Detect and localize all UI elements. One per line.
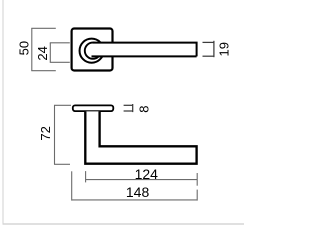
page bottom border: [3, 223, 245, 225]
svg-text:50: 50: [17, 41, 32, 55]
svg-text:8: 8: [136, 106, 151, 113]
page left border: [2, 0, 4, 224]
dimension 72 line: [54, 105, 71, 164]
lever bar (top view): [93, 43, 197, 57]
rosette square (top view): [72, 29, 113, 71]
dimension 50 line: [31, 28, 56, 70]
rosette outer circle: [80, 39, 104, 63]
svg-text:148: 148: [126, 184, 150, 200]
dimension 19 bracket: [203, 41, 214, 57]
handle L profile (front view): [85, 111, 196, 163]
dimension 124 line: [86, 171, 198, 186]
svg-text:24: 24: [35, 46, 50, 60]
handle neck inner circle: [85, 43, 101, 59]
svg-text:124: 124: [135, 166, 159, 182]
rosette plate (front view): [73, 105, 114, 111]
dimension 148 line: [72, 171, 198, 200]
svg-text:72: 72: [38, 126, 53, 140]
dimension 24 line: [50, 43, 70, 63]
svg-text:19: 19: [216, 42, 231, 56]
dimension 8 bracket: [124, 104, 133, 112]
